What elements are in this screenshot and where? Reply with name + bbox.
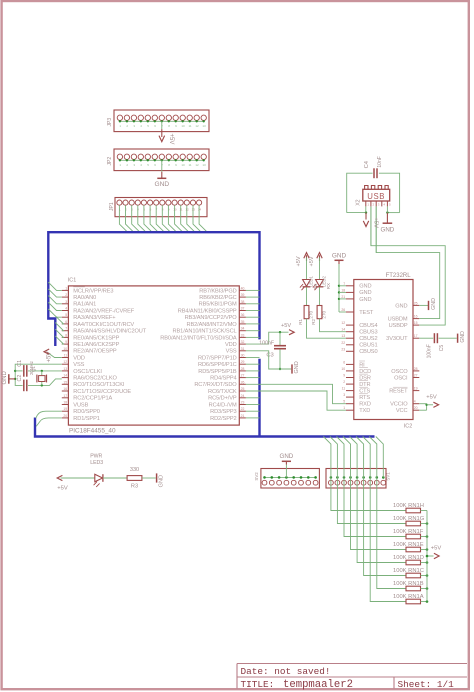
svg-text:RB6/KBI2/PGC: RB6/KBI2/PGC <box>199 295 236 301</box>
svg-text:GND: GND <box>381 227 395 234</box>
svg-text:RD4/SPP4: RD4/SPP4 <box>210 376 236 382</box>
svg-text:RD0/SPP0: RD0/SPP0 <box>73 409 99 415</box>
svg-text:+5V: +5V <box>431 545 442 551</box>
svg-text:31: 31 <box>241 347 245 351</box>
svg-text:23: 23 <box>341 347 345 351</box>
svg-text:RA5/AN4/SS/HLVDIN/C2OUT: RA5/AN4/SS/HLVDIN/C2OUT <box>73 329 146 335</box>
svg-text:GND: GND <box>280 453 294 460</box>
svg-text:30: 30 <box>241 354 245 358</box>
svg-text:RTS: RTS <box>359 395 370 401</box>
svg-text:CBUS4: CBUS4 <box>359 323 377 329</box>
svg-text:TEST: TEST <box>359 310 374 316</box>
svg-text:CBUS2: CBUS2 <box>359 336 377 342</box>
svg-text:28: 28 <box>241 367 245 371</box>
svg-text:8: 8 <box>65 333 67 337</box>
svg-text:12: 12 <box>341 321 345 325</box>
svg-text:11: 11 <box>188 124 191 128</box>
svg-text:11: 11 <box>64 354 68 358</box>
svg-text:270: 270 <box>308 310 313 318</box>
svg-text:RD7/SPP7/P1D: RD7/SPP7/P1D <box>198 355 237 361</box>
svg-text:11: 11 <box>179 207 182 211</box>
svg-text:16: 16 <box>414 315 418 319</box>
svg-text:RD2/SPP2: RD2/SPP2 <box>210 416 236 422</box>
svg-text:14: 14 <box>63 374 67 378</box>
svg-text:17: 17 <box>414 334 418 338</box>
svg-text:SV1: SV1 <box>386 472 391 481</box>
svg-text:GND: GND <box>159 475 165 487</box>
svg-text:12: 12 <box>185 207 189 211</box>
svg-text:RX: RX <box>326 283 331 289</box>
svg-text:FT232RL: FT232RL <box>386 273 412 279</box>
svg-text:20: 20 <box>414 406 418 410</box>
svg-text:CBUS0: CBUS0 <box>359 349 377 355</box>
svg-text:11: 11 <box>342 387 346 391</box>
svg-text:13: 13 <box>202 163 206 167</box>
svg-text:39: 39 <box>241 293 245 297</box>
svg-text:MCLR/VPP/RE3: MCLR/VPP/RE3 <box>73 288 113 294</box>
svg-text:RA3/AN3/VREF+: RA3/AN3/VREF+ <box>73 315 116 321</box>
svg-text:USB: USB <box>367 192 385 201</box>
svg-text:9: 9 <box>65 340 67 344</box>
svg-text:JP1: JP1 <box>109 202 115 211</box>
svg-text:6: 6 <box>343 360 345 364</box>
svg-text:SV2: SV2 <box>254 472 259 481</box>
svg-text:GND: GND <box>395 303 407 309</box>
svg-text:11: 11 <box>188 163 191 167</box>
svg-text:GND: GND <box>359 297 371 303</box>
svg-text:10: 10 <box>341 367 345 371</box>
svg-text:40: 40 <box>241 286 245 290</box>
svg-text:RE1/AN6/CK2SPP: RE1/AN6/CK2SPP <box>73 342 119 348</box>
svg-text:GND: GND <box>359 284 371 290</box>
svg-text:100K RN1A: 100K RN1A <box>393 594 424 600</box>
svg-text:20MHz: 20MHz <box>29 361 34 375</box>
svg-text:19: 19 <box>414 387 418 391</box>
svg-text:17: 17 <box>63 394 67 398</box>
svg-text:3: 3 <box>343 393 345 397</box>
svg-text:28: 28 <box>414 367 418 371</box>
svg-text:RESET: RESET <box>389 389 408 395</box>
svg-text:6: 6 <box>65 320 67 324</box>
svg-text:100K RN1H: 100K RN1H <box>393 503 424 509</box>
svg-text:GND: GND <box>332 253 347 260</box>
svg-text:Sheet: 1/1: Sheet: 1/1 <box>398 679 455 690</box>
svg-text:VSS: VSS <box>226 349 237 355</box>
svg-text:GND: GND <box>359 290 371 296</box>
svg-text:+5V: +5V <box>373 217 379 228</box>
svg-text:RB2/AN8/INT2/VMO: RB2/AN8/INT2/VMO <box>186 322 237 328</box>
svg-text:37: 37 <box>241 307 245 311</box>
svg-text:100K RN1G: 100K RN1G <box>393 516 425 522</box>
svg-text:JP2: JP2 <box>107 157 113 166</box>
svg-text:RC7/RX/DT/SDO: RC7/RX/DT/SDO <box>194 382 237 388</box>
svg-text:RE2/AN7/OESPP: RE2/AN7/OESPP <box>73 349 117 355</box>
svg-text:2: 2 <box>65 293 67 297</box>
svg-text:10: 10 <box>63 347 67 351</box>
svg-text:OSC1/CLKI: OSC1/CLKI <box>73 369 102 375</box>
svg-text:JP3: JP3 <box>107 118 113 127</box>
svg-text:21: 21 <box>241 414 245 418</box>
svg-text:+5V: +5V <box>57 486 68 492</box>
svg-text:RC4/D-/VM: RC4/D-/VM <box>209 402 237 408</box>
svg-text:RB7/KBI3/PGD: RB7/KBI3/PGD <box>199 288 236 294</box>
svg-text:100K RN1C: 100K RN1C <box>393 568 424 574</box>
svg-text:C2: C2 <box>17 375 23 382</box>
svg-text:5: 5 <box>343 400 345 404</box>
svg-text:RC1/T1OSI/CCP2/UOE: RC1/T1OSI/CCP2/UOE <box>73 389 131 395</box>
svg-text:36: 36 <box>241 313 245 317</box>
svg-text:13: 13 <box>341 334 345 338</box>
svg-text:23: 23 <box>241 401 245 405</box>
svg-text:VDD: VDD <box>73 355 85 361</box>
svg-text:2: 2 <box>343 380 345 384</box>
svg-text:R3: R3 <box>131 483 138 489</box>
svg-text:VCC: VCC <box>396 408 408 414</box>
svg-text:5: 5 <box>65 313 67 317</box>
svg-text:RB5/KBI1/PGM: RB5/KBI1/PGM <box>199 302 237 308</box>
svg-text:OSCO: OSCO <box>391 369 408 375</box>
svg-text:4: 4 <box>65 307 67 311</box>
svg-text:13: 13 <box>192 207 196 211</box>
svg-text:RC2/CCP1/P1A: RC2/CCP1/P1A <box>73 396 112 402</box>
svg-text:CBUS1: CBUS1 <box>359 343 377 349</box>
svg-text:LED3: LED3 <box>90 460 103 466</box>
svg-text:34: 34 <box>241 327 245 331</box>
svg-text:TX: TX <box>313 284 318 290</box>
svg-text:VDD: VDD <box>225 342 237 348</box>
svg-text:4: 4 <box>414 400 416 404</box>
svg-text:RB4/AN11/KBI0/CSSPP: RB4/AN11/KBI0/CSSPP <box>178 308 237 314</box>
svg-text:330: 330 <box>130 467 139 473</box>
svg-text:10nF: 10nF <box>377 156 383 167</box>
svg-text:GND: GND <box>294 361 300 373</box>
svg-text:RA1/AN1: RA1/AN1 <box>73 302 96 308</box>
svg-text:270: 270 <box>321 310 326 318</box>
svg-text:VCCIO: VCCIO <box>390 402 408 408</box>
svg-text:RC5/D+/VP: RC5/D+/VP <box>208 396 237 402</box>
svg-text:RD1/SPP1: RD1/SPP1 <box>73 416 99 422</box>
svg-text:18: 18 <box>341 288 345 292</box>
svg-text:RE0/AN5/CK1SPP: RE0/AN5/CK1SPP <box>73 335 119 341</box>
svg-text:22: 22 <box>241 407 245 411</box>
svg-text:+5V: +5V <box>46 352 52 363</box>
svg-text:RC0/T1OSO/T13CKI: RC0/T1OSO/T13CKI <box>73 382 125 388</box>
svg-text:32: 32 <box>241 340 245 344</box>
svg-text:35: 35 <box>241 320 245 324</box>
svg-text:PIC18F4455_40: PIC18F4455_40 <box>69 428 116 435</box>
svg-text:7: 7 <box>65 327 67 331</box>
svg-text:IC1: IC1 <box>68 278 76 284</box>
svg-text:22: 22 <box>341 341 345 345</box>
svg-text:C5: C5 <box>439 345 445 352</box>
svg-text:RD3/SPP3: RD3/SPP3 <box>210 409 236 415</box>
svg-text:C3: C3 <box>266 353 273 359</box>
svg-text:10: 10 <box>181 124 185 128</box>
svg-text:+5V: +5V <box>281 323 291 329</box>
svg-text:26: 26 <box>341 308 345 312</box>
svg-text:3: 3 <box>65 300 67 304</box>
svg-text:VUSB: VUSB <box>73 402 88 408</box>
svg-text:16: 16 <box>63 387 67 391</box>
svg-text:+5V: +5V <box>426 394 437 400</box>
svg-text:+5V: +5V <box>296 256 302 266</box>
svg-text:USBDP: USBDP <box>389 323 408 329</box>
svg-text:15: 15 <box>63 380 67 384</box>
svg-text:tempmaaler2: tempmaaler2 <box>283 679 353 691</box>
svg-text:CBUS3: CBUS3 <box>359 330 377 336</box>
svg-text:13: 13 <box>202 124 206 128</box>
svg-text:RC6/TX/CK: RC6/TX/CK <box>208 389 237 395</box>
svg-text:20: 20 <box>63 414 67 418</box>
svg-text:100K RN1B: 100K RN1B <box>393 581 424 587</box>
svg-text:19: 19 <box>63 407 67 411</box>
svg-text:R2: R2 <box>311 318 316 324</box>
svg-text:1: 1 <box>343 406 345 410</box>
svg-text:10: 10 <box>173 207 177 211</box>
svg-text:USBDM: USBDM <box>388 316 408 322</box>
svg-text:18: 18 <box>63 401 67 405</box>
svg-text:RA6/OSC2/CLKO: RA6/OSC2/CLKO <box>73 376 117 382</box>
svg-text:29: 29 <box>241 360 245 364</box>
svg-text:100nF: 100nF <box>426 344 432 358</box>
svg-text:21: 21 <box>341 295 345 299</box>
svg-text:12: 12 <box>63 360 67 364</box>
svg-text:+5V: +5V <box>309 256 315 266</box>
svg-text:Date: not saved!: Date: not saved! <box>241 666 331 677</box>
svg-text:+5V: +5V <box>168 134 174 145</box>
svg-text:RD6/SPP6/P1C: RD6/SPP6/P1C <box>198 362 237 368</box>
svg-text:15: 15 <box>414 321 418 325</box>
svg-text:RB0/AN12/INT0/FLT0/SDI/SDA: RB0/AN12/INT0/FLT0/SDI/SDA <box>160 335 237 341</box>
svg-text:3V3OUT: 3V3OUT <box>386 336 408 342</box>
svg-text:100K RN1D: 100K RN1D <box>393 555 424 561</box>
svg-text:33: 33 <box>241 333 245 337</box>
svg-text:IC2: IC2 <box>404 424 412 430</box>
svg-text:TXD: TXD <box>359 408 370 414</box>
svg-text:14: 14 <box>198 207 202 211</box>
svg-text:24: 24 <box>241 394 245 398</box>
svg-text:26: 26 <box>241 380 245 384</box>
svg-text:7: 7 <box>343 282 345 286</box>
svg-text:100nF: 100nF <box>259 341 274 347</box>
svg-text:13: 13 <box>63 367 67 371</box>
svg-text:27: 27 <box>414 374 418 378</box>
svg-text:100K RN1E: 100K RN1E <box>393 542 424 548</box>
svg-text:TITLE:: TITLE: <box>241 679 275 690</box>
svg-text:12: 12 <box>195 163 199 167</box>
svg-text:R1: R1 <box>298 318 303 324</box>
svg-text:GND: GND <box>460 331 466 343</box>
svg-text:1: 1 <box>65 286 67 290</box>
svg-text:C1: C1 <box>17 360 23 367</box>
svg-text:GND: GND <box>154 181 169 188</box>
svg-text:RXD: RXD <box>359 402 371 408</box>
svg-text:RA4/T0CKI/C1OUT/RCV: RA4/T0CKI/C1OUT/RCV <box>73 322 134 328</box>
svg-text:10: 10 <box>181 163 185 167</box>
svg-text:GND: GND <box>2 371 8 385</box>
svg-text:VSS: VSS <box>73 362 84 368</box>
svg-text:RA0/AN0: RA0/AN0 <box>73 295 96 301</box>
svg-text:RD5/SPP5/P1B: RD5/SPP5/P1B <box>198 369 237 375</box>
svg-text:100K RN1F: 100K RN1F <box>393 529 424 535</box>
svg-text:RB3/AN9/CCP2/VPO: RB3/AN9/CCP2/VPO <box>185 315 238 321</box>
svg-text:PWR: PWR <box>90 454 102 460</box>
svg-text:12: 12 <box>195 124 199 128</box>
svg-text:38: 38 <box>241 300 245 304</box>
svg-text:RA2/AN2/VREF-/CVREF: RA2/AN2/VREF-/CVREF <box>73 308 134 314</box>
svg-text:27: 27 <box>241 374 245 378</box>
svg-text:OSCI: OSCI <box>394 375 408 381</box>
svg-text:25: 25 <box>414 301 418 305</box>
svg-text:GND: GND <box>431 298 437 310</box>
svg-text:C4: C4 <box>364 160 370 168</box>
svg-text:9: 9 <box>343 374 345 378</box>
svg-text:RB1/AN10/INT1/SCK/SCL: RB1/AN10/INT1/SCK/SCL <box>173 329 237 335</box>
svg-text:25: 25 <box>241 387 245 391</box>
svg-text:14: 14 <box>341 328 345 332</box>
svg-text:X2: X2 <box>355 199 361 205</box>
